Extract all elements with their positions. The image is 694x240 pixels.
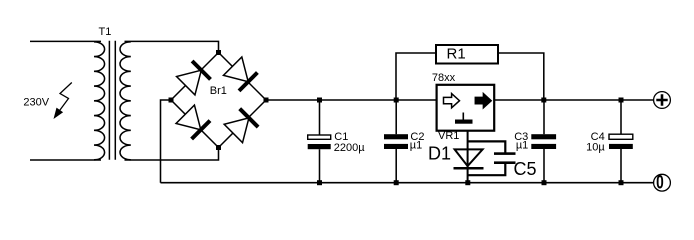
- svg-text:78xx: 78xx: [432, 72, 456, 84]
- transformer T1 secondary winding: [120, 42, 131, 160]
- regulator output arrow (filled): [475, 94, 491, 108]
- bridge diode D-TL: [177, 60, 212, 95]
- regulator ground pin symbol: [462, 113, 464, 120]
- wire primary top: [30, 40, 101, 42]
- capacitor C1: [308, 135, 331, 139]
- svg-text:T1: T1: [99, 26, 112, 38]
- junction C1 bottom: [317, 180, 322, 185]
- junction C1 top: [317, 98, 322, 103]
- node bridge DC minus (left): [169, 98, 174, 103]
- wire primary bottom: [30, 159, 101, 161]
- wire C4: [620, 100, 622, 183]
- svg-text:C5: C5: [514, 159, 537, 179]
- wire secondary top to bridge: [125, 41, 219, 52]
- svg-text:2200µ: 2200µ: [334, 142, 365, 154]
- node bridge DC plus (right): [264, 98, 269, 103]
- wire R1 left: [396, 53, 436, 100]
- svg-text:Br1: Br1: [210, 85, 227, 97]
- wire secondary bottom to bridge: [125, 148, 219, 161]
- junction C2 bottom: [394, 180, 399, 185]
- capacitor C4: [609, 134, 633, 139]
- wire C5 bottom: [468, 163, 506, 176]
- wire plus rail right: [494, 99, 653, 101]
- plus terminal: [654, 92, 671, 109]
- wire C5 top: [468, 141, 506, 153]
- junction C2 / R1 left: [394, 98, 399, 103]
- svg-text:µ1: µ1: [410, 139, 422, 151]
- svg-text:VR1: VR1: [438, 130, 459, 142]
- bridge diode D-BL: [176, 105, 211, 140]
- wire C2: [395, 100, 397, 183]
- regulator input arrow (open): [444, 94, 460, 108]
- wire left node to bottom rail: [161, 100, 172, 183]
- capacitor C5 plates: [494, 152, 516, 155]
- bridge diode D-TR: [223, 57, 258, 92]
- svg-text:R1: R1: [447, 46, 466, 63]
- wire regulator ground stem: [467, 131, 469, 183]
- svg-text:D1: D1: [428, 144, 451, 164]
- bridge Br1 diamond: [171, 53, 266, 148]
- junction C3 bottom: [542, 180, 547, 185]
- wire C1: [319, 100, 321, 183]
- junction C3 / R1 right: [541, 98, 546, 103]
- regulator U1 78xx box: [437, 85, 495, 131]
- bridge diode D-BR: [224, 107, 259, 142]
- wire R1 right: [498, 53, 544, 100]
- node bridge AC bottom: [216, 145, 221, 150]
- node bridge AC top: [216, 50, 221, 55]
- svg-text:0: 0: [656, 171, 664, 193]
- junction D1 bottom: [465, 180, 470, 185]
- wire bottom rail: [161, 182, 654, 184]
- wire plus rail left: [266, 99, 437, 101]
- capacitor C2: [384, 134, 408, 139]
- junction C4 top: [619, 98, 624, 103]
- transformer T1 primary winding: [94, 42, 105, 160]
- junction C4 bottom: [619, 180, 624, 185]
- zero terminal: [654, 174, 671, 191]
- resistor R1: [436, 45, 498, 64]
- mains lightning arrow: [57, 83, 72, 115]
- diode D1: [455, 149, 483, 166]
- capacitor C3: [531, 134, 556, 139]
- svg-text:µ1: µ1: [516, 139, 528, 151]
- svg-text:10µ: 10µ: [586, 141, 605, 153]
- wire C3: [543, 100, 545, 183]
- transformer T1 core: [109, 41, 115, 160]
- svg-text:230V: 230V: [23, 97, 49, 109]
